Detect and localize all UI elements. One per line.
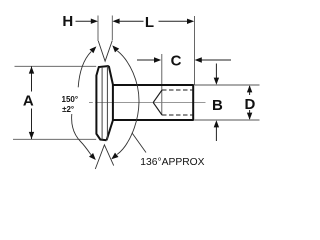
svg-text:150°: 150° <box>62 95 79 104</box>
svg-text:H: H <box>62 13 73 30</box>
svg-text:136°APPROX: 136°APPROX <box>140 157 204 168</box>
svg-text:D: D <box>245 96 256 113</box>
svg-text:L: L <box>145 14 154 31</box>
svg-text:C: C <box>171 52 182 69</box>
svg-text:±2°: ±2° <box>62 105 74 114</box>
svg-text:A: A <box>23 93 34 110</box>
svg-text:B: B <box>212 97 223 114</box>
